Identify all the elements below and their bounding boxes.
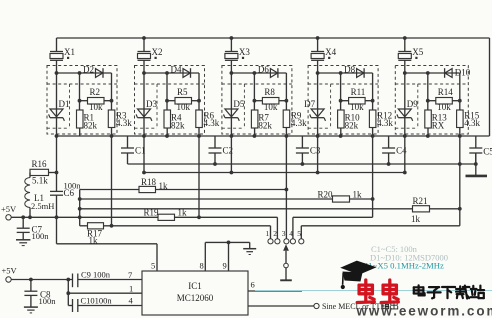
- wire bus capacitors ground: [128, 162, 476, 166]
- svg-text:MC12060: MC12060: [177, 293, 214, 303]
- svg-text:5: 5: [151, 261, 155, 271]
- svg-text:RX: RX: [432, 121, 445, 131]
- inductor L1: [25, 178, 55, 220]
- svg-text:R20: R20: [318, 189, 334, 199]
- svg-text:R19: R19: [144, 208, 160, 218]
- selector contact 2: [273, 229, 280, 244]
- wire selector contact2 lead: [276, 217, 278, 238]
- watermark light line: [255, 290, 492, 292]
- svg-text:D10: D10: [455, 68, 471, 78]
- svg-text:4.3k: 4.3k: [291, 118, 307, 128]
- resistor R6: [196, 110, 220, 136]
- terminal sine output: [314, 302, 398, 311]
- resistor R10: [338, 110, 361, 136]
- svg-text:D3: D3: [146, 99, 157, 109]
- wire channel 1 top: [55, 71, 112, 75]
- svg-text:1k: 1k: [353, 189, 363, 199]
- channel 5 outer dashed box: [395, 66, 468, 135]
- svg-text:82k: 82k: [258, 121, 272, 131]
- resistor R11: [339, 87, 375, 112]
- capacitor C3: [296, 136, 321, 164]
- diode D8: [344, 64, 364, 78]
- selector contact 3: [282, 229, 289, 244]
- wire channel 3 top: [230, 71, 287, 75]
- diode D6: [258, 64, 278, 78]
- resistor R3: [108, 110, 132, 136]
- selector wiper arrow: [283, 244, 289, 279]
- capacitor C7: [17, 215, 50, 241]
- svg-text:82k: 82k: [171, 121, 185, 131]
- wire channel4 stem drop: [316, 136, 320, 174]
- channel 4 outer dashed box: [308, 66, 378, 135]
- wire channel2 output drop: [197, 136, 201, 219]
- svg-text:C5: C5: [483, 147, 492, 157]
- wire channel1 left column: [55, 136, 59, 244]
- wire channel 2 right vertical: [198, 73, 200, 110]
- selector contact 1: [266, 229, 274, 244]
- terminal +5V lower: [2, 266, 18, 283]
- svg-text:R11: R11: [351, 87, 366, 97]
- svg-text:R5: R5: [177, 87, 188, 97]
- capacitor C9: [73, 270, 143, 288]
- svg-text:1k: 1k: [159, 181, 169, 191]
- svg-text:www.eeworm.com: www.eeworm.com: [356, 304, 492, 318]
- svg-text:10k: 10k: [437, 102, 451, 112]
- wire channel1 output drop: [110, 136, 114, 228]
- svg-text:4.3k: 4.3k: [116, 118, 132, 128]
- ground below C8: [24, 307, 38, 313]
- resistor R1: [77, 110, 98, 136]
- dashed box around D5: [222, 84, 292, 128]
- wire channel5 output drop: [458, 136, 462, 226]
- svg-text:IC1: IC1: [188, 281, 202, 291]
- capacitor C6: [50, 181, 81, 199]
- svg-text:4: 4: [289, 229, 293, 238]
- wire channel5 stem drop: [403, 136, 407, 174]
- channel 3 outer dashed box: [222, 66, 292, 135]
- wire pin8 to ground: [200, 242, 250, 271]
- wire channel3 stem drop: [230, 136, 234, 174]
- diode D10: [445, 68, 471, 78]
- wire bus common left vertical: [78, 190, 82, 226]
- wire channel3 output drop: [285, 136, 289, 239]
- crystal X3: [225, 38, 250, 73]
- wire bus stems: [144, 172, 405, 174]
- watermark chongchong text: [357, 280, 398, 303]
- resistor R7: [251, 110, 272, 136]
- diode D3: [136, 73, 157, 136]
- node X2 rail junction: [142, 36, 146, 40]
- capacitor C2: [209, 136, 234, 164]
- svg-text:8: 8: [200, 261, 204, 271]
- diode D1: [49, 73, 70, 136]
- resistor R19 on +5V bus: [11, 208, 277, 221]
- note X1-X5 range: [362, 261, 444, 271]
- svg-text:X5: X5: [412, 47, 423, 57]
- wire channel 5 right vertical: [459, 73, 461, 110]
- svg-text:X2: X2: [152, 47, 163, 57]
- svg-text:4.3k: 4.3k: [464, 118, 480, 128]
- ground below C5: [466, 175, 488, 178]
- node X4 rail junction: [316, 36, 320, 40]
- svg-text:D8: D8: [344, 64, 355, 74]
- svg-text:C10100n: C10100n: [81, 296, 113, 306]
- svg-text:D2: D2: [83, 64, 94, 74]
- resistor R13: [425, 110, 448, 136]
- svg-text:10k: 10k: [89, 102, 103, 112]
- wire common bottom rail: [55, 134, 490, 138]
- wire channel 1 right vertical: [111, 73, 113, 110]
- resistor R18: [80, 177, 287, 193]
- svg-text:D5: D5: [233, 99, 244, 109]
- wire pin6 output: [248, 280, 302, 292]
- op-amp IC1 MC12060 box: [142, 271, 248, 315]
- capacitor C8: [24, 280, 56, 307]
- watermark graduation cap: [340, 261, 376, 290]
- channel 1 outer dashed box: [47, 66, 117, 135]
- resistor R4: [164, 110, 185, 136]
- wire pin5 route: [57, 244, 158, 271]
- diode D9: [397, 73, 418, 136]
- dashed box around D3: [135, 84, 205, 128]
- svg-text:10k: 10k: [350, 102, 364, 112]
- wire channel 3 mid vertical: [253, 73, 255, 110]
- capacitor C10: [68, 296, 142, 313]
- svg-text:D1: D1: [59, 99, 70, 109]
- ground below C7: [16, 240, 30, 246]
- resistor R8: [253, 87, 289, 112]
- svg-text:9: 9: [223, 261, 227, 271]
- note C1-C5 value: [371, 244, 418, 254]
- wire channel 1 mid vertical: [79, 73, 81, 110]
- svg-text:X1: X1: [64, 47, 75, 57]
- svg-text:+5V: +5V: [2, 266, 18, 276]
- diode D5: [224, 73, 245, 136]
- resistor R21: [80, 196, 460, 224]
- wire selector contact4 bus: [293, 217, 373, 238]
- svg-text:D4: D4: [171, 64, 182, 74]
- watermark site name: [414, 285, 484, 298]
- crystal X2: [138, 38, 163, 73]
- capacitor C5: [469, 136, 492, 164]
- svg-text:2: 2: [273, 229, 277, 238]
- svg-text:5: 5: [297, 229, 301, 238]
- svg-text:D9: D9: [407, 99, 418, 109]
- diode D7: [304, 73, 325, 136]
- crystal X5: [398, 38, 423, 73]
- selector contact 4: [289, 229, 295, 244]
- wire top supply rail: [57, 37, 490, 39]
- wire channel 4 mid vertical: [340, 73, 342, 110]
- svg-text:X4: X4: [325, 47, 336, 57]
- wire channel2 stem drop: [142, 136, 146, 174]
- svg-text:10k: 10k: [264, 102, 278, 112]
- svg-text:R21: R21: [413, 196, 428, 206]
- wire selector contact1 lead: [270, 226, 272, 239]
- node X5 rail junction: [403, 36, 407, 40]
- svg-text:R18: R18: [141, 177, 157, 187]
- svg-text:7: 7: [128, 270, 132, 280]
- crystal X4: [311, 38, 336, 73]
- dashed box around D1: [47, 84, 117, 128]
- resistor R9: [283, 110, 307, 136]
- resistor R5: [165, 87, 201, 112]
- watermark url: [356, 304, 492, 318]
- capacitor C1: [121, 136, 146, 164]
- resistor R16: [30, 159, 57, 186]
- svg-text:+5V: +5V: [1, 204, 17, 214]
- wire channel 2 top: [142, 71, 199, 75]
- svg-text:5.1k: 5.1k: [32, 176, 48, 186]
- wire sine output: [248, 305, 314, 307]
- dashed box around D7: [308, 84, 378, 128]
- ground below selector wiper: [280, 279, 292, 281]
- svg-text:1: 1: [266, 229, 270, 238]
- svg-text:82k: 82k: [345, 121, 359, 131]
- wire channel 5 top: [403, 71, 460, 75]
- wire channel4 output drop: [371, 136, 375, 217]
- svg-text:82k: 82k: [84, 121, 98, 131]
- resistor R2: [78, 87, 114, 112]
- svg-text:R8: R8: [264, 87, 275, 97]
- svg-text:D6: D6: [258, 64, 269, 74]
- svg-text:X3: X3: [239, 47, 250, 57]
- svg-text:R16: R16: [32, 159, 48, 169]
- wire +5V lower to C9: [11, 278, 72, 282]
- svg-text:100n: 100n: [32, 231, 50, 241]
- svg-text:4.3k: 4.3k: [377, 118, 393, 128]
- svg-text:C3: C3: [310, 146, 321, 156]
- resistor R20: [80, 189, 373, 202]
- svg-text:6: 6: [251, 280, 255, 290]
- wire channel 4 top: [316, 71, 373, 75]
- note D1-D10 type: [370, 253, 448, 263]
- wire pin9 to ground: [223, 241, 231, 272]
- wire right edge drop: [489, 38, 491, 136]
- svg-text:1k: 1k: [178, 208, 188, 218]
- capacitor C4: [382, 136, 407, 164]
- svg-text:1: 1: [129, 284, 133, 294]
- wire C5 to ground: [474, 153, 478, 175]
- ground at pins 8 9: [243, 242, 256, 254]
- wire channel 4 right vertical: [372, 73, 374, 110]
- crystal X1: [50, 38, 75, 73]
- svg-text:C9 100n: C9 100n: [81, 270, 111, 280]
- selector contact 5: [297, 229, 304, 244]
- svg-text:1k: 1k: [411, 214, 421, 224]
- wire channel 5 mid vertical: [427, 73, 429, 110]
- wire channel 3 right vertical: [285, 73, 287, 110]
- dashed box around D9: [395, 84, 468, 128]
- wire channel 2 mid vertical: [166, 73, 168, 110]
- resistor R14: [426, 87, 462, 112]
- resistor R12: [369, 110, 393, 136]
- wire pin1: [66, 280, 142, 306]
- svg-text:R2: R2: [90, 87, 101, 97]
- channel 2 outer dashed box: [135, 66, 205, 135]
- resistor R17: [80, 223, 271, 246]
- svg-text:10k: 10k: [177, 102, 191, 112]
- svg-text:R14: R14: [438, 87, 454, 97]
- diode D4: [171, 64, 191, 78]
- svg-text:2.5mH: 2.5mH: [31, 201, 54, 211]
- terminal +5V upper: [1, 204, 17, 220]
- wire selector contact5 bus: [301, 226, 460, 239]
- svg-text:D7: D7: [304, 99, 315, 109]
- node X3 rail junction: [230, 36, 234, 40]
- svg-text:C6: C6: [64, 188, 75, 198]
- diode D2: [83, 64, 103, 78]
- svg-text:100n: 100n: [39, 296, 57, 306]
- svg-text:3: 3: [282, 229, 286, 238]
- svg-text:X1~X5 0.1MHz-2MHz: X1~X5 0.1MHz-2MHz: [362, 261, 444, 271]
- resistor R15: [457, 110, 481, 136]
- svg-text:4.3k: 4.3k: [204, 118, 220, 128]
